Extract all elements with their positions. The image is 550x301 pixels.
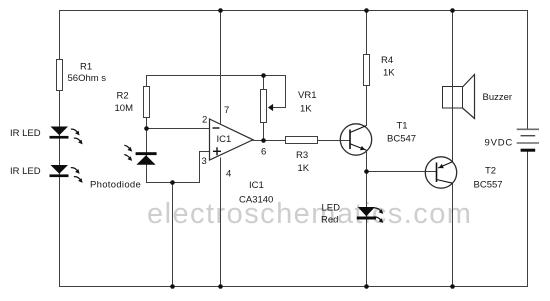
- node R2/pin2/photodiode: [144, 126, 149, 131]
- svg-text:T2: T2: [485, 166, 496, 177]
- wire R4 to T1 collector: [366, 86, 368, 127]
- svg-text:VR1: VR1: [298, 90, 316, 101]
- LED red D4: [321, 203, 383, 226]
- svg-text:R1: R1: [80, 62, 92, 73]
- svg-text:7: 7: [224, 105, 229, 116]
- photodiode D3: [90, 145, 157, 190]
- transistor Q2 BC557: [425, 157, 502, 191]
- resistor R1: [57, 60, 107, 91]
- svg-text:9VDC: 9VDC: [485, 138, 514, 149]
- svg-text:R3: R3: [296, 150, 308, 161]
- node feedback-VR1: [261, 73, 266, 78]
- svg-text:IR LED: IR LED: [10, 128, 41, 139]
- svg-text:BC547: BC547: [387, 134, 416, 145]
- buzzer BZ1: [443, 75, 513, 119]
- svg-text:Buzzer: Buzzer: [483, 92, 513, 103]
- wire right border top (to battery +): [527, 10, 529, 130]
- svg-text:3: 3: [202, 156, 207, 167]
- svg-text:IC1: IC1: [217, 134, 232, 145]
- wire opamp output to R3: [253, 140, 286, 142]
- op-amp U1 CA3140: [202, 105, 274, 205]
- wire R3 to T1 base: [318, 140, 351, 142]
- wire photodiode bottom to pin3: [146, 152, 210, 183]
- svg-text:IR LED: IR LED: [10, 166, 41, 177]
- wire feedback top horizontal: [146, 76, 286, 108]
- transistor Q1 BC547: [340, 121, 416, 156]
- node top-pin7: [218, 8, 223, 13]
- resistor R2: [115, 87, 150, 118]
- wire top rail to buzzer: [452, 10, 454, 162]
- wire T1 emitter node to T2 base: [367, 171, 437, 173]
- wire bottom ground rail: [59, 286, 528, 288]
- battery B1 9VDC: [485, 129, 540, 150]
- node photodiode-gnd tap: [170, 180, 175, 185]
- svg-text:IC1: IC1: [249, 180, 264, 191]
- svg-text:6: 6: [261, 146, 266, 157]
- svg-text:1K: 1K: [383, 68, 395, 79]
- wire right border bottom (from battery -): [527, 151, 529, 288]
- node T1 emitter: [364, 169, 369, 174]
- node gnd-pin4: [218, 284, 223, 289]
- svg-text:BC557: BC557: [474, 180, 503, 191]
- wire pin4 to bottom rail: [220, 158, 222, 287]
- svg-text:T1: T1: [397, 121, 408, 132]
- svg-text:CA3140: CA3140: [239, 194, 273, 205]
- IR LED D1: [10, 127, 83, 145]
- node gnd-photodiode: [170, 284, 175, 289]
- potentiometer VR1: [261, 90, 317, 123]
- svg-text:4: 4: [226, 169, 231, 180]
- resistor R3: [286, 137, 318, 174]
- IR LED D2: [10, 165, 83, 183]
- wire R2 branch vertical: [146, 75, 148, 183]
- svg-text:2: 2: [202, 115, 207, 126]
- resistor R4: [364, 55, 396, 86]
- svg-text:10M: 10M: [115, 103, 134, 114]
- wire VR1 bottom to output: [263, 123, 265, 141]
- node gnd-T2: [450, 284, 455, 289]
- svg-text:LED: LED: [322, 203, 341, 214]
- wire pin7 to top rail: [220, 10, 222, 124]
- wire top rail to R4: [366, 10, 368, 55]
- wire top supply rail: [59, 10, 528, 12]
- svg-text:Photodiode: Photodiode: [90, 180, 141, 191]
- node gnd-LED: [364, 284, 369, 289]
- wire photodiode node to bottom rail: [172, 182, 174, 287]
- node output-VR1: [261, 138, 266, 143]
- svg-text:56Ohm s: 56Ohm s: [68, 73, 107, 84]
- svg-text:R4: R4: [381, 55, 393, 66]
- svg-text:electroschematics.com: electroschematics.com: [147, 198, 472, 230]
- wire T2 collector to bottom rail: [452, 183, 454, 287]
- wire pin2 input: [146, 128, 210, 130]
- node top-R4: [364, 8, 369, 13]
- svg-text:1K: 1K: [300, 104, 312, 115]
- wire VR1 top: [263, 75, 265, 90]
- node top-buzzer: [450, 8, 455, 13]
- wire left branch (border with R1 + IR LEDs): [59, 10, 61, 287]
- svg-text:1K: 1K: [298, 163, 310, 174]
- svg-text:R2: R2: [117, 91, 129, 102]
- svg-text:Red: Red: [321, 214, 338, 225]
- wire T1 emitter down through LED to bottom rail: [366, 152, 368, 287]
